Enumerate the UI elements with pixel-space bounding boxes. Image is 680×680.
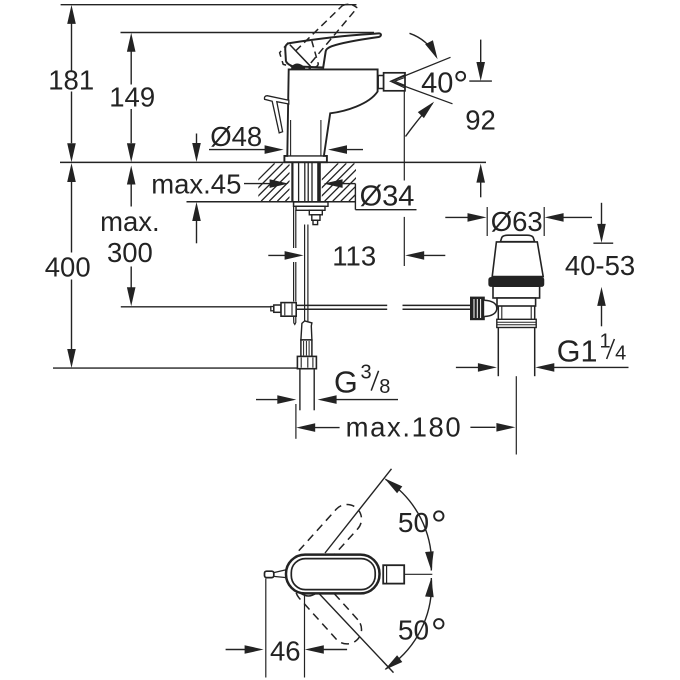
aerator top view (383, 565, 404, 583)
dimension max.180 (296, 412, 515, 443)
dimension 113 (268, 240, 445, 271)
knob housing (484, 300, 497, 316)
dimension 181 vertical (48, 5, 94, 162)
swing angle upper line (325, 469, 392, 553)
raised lever dashed outline (280, 4, 358, 68)
hose crimp sleeve (301, 340, 312, 357)
svg-text:8: 8 (379, 376, 390, 398)
lever tip top view (265, 570, 287, 578)
svg-text:4: 4 (615, 342, 626, 364)
dimension Ø48 base (209, 121, 363, 154)
drain centerline (515, 376, 517, 454)
svg-text:113: 113 (332, 240, 376, 271)
mounting deck surface line (60, 161, 486, 163)
handle swing dashed outline upper (295, 504, 361, 574)
drain control knob (471, 297, 485, 319)
svg-text:181: 181 (48, 65, 94, 96)
swing angle lower line (319, 594, 394, 673)
dimension 40-53 (565, 203, 635, 326)
svg-text:max.: max. (100, 206, 160, 237)
dimension G1 1/4 (456, 331, 629, 372)
drain rubber seal (489, 278, 544, 287)
bottom reference line (hose length 400) (53, 367, 298, 369)
dimension Ø34 hole with leader (324, 179, 417, 212)
spray angle lower line (392, 82, 453, 104)
spray angle upper arc (410, 33, 438, 59)
label 40 deg (421, 67, 465, 99)
deck underside line (187, 201, 357, 203)
svg-text:300: 300 (107, 237, 153, 268)
supply hose (301, 225, 312, 340)
svg-text:400: 400 (45, 252, 91, 283)
svg-text:92: 92 (465, 105, 496, 136)
dimension 400 vertical (45, 163, 91, 368)
svg-text:40: 40 (421, 67, 453, 99)
svg-text:Ø34: Ø34 (360, 180, 415, 212)
extension line faucet centerline (295, 404, 297, 439)
dimension max.45 (151, 134, 288, 244)
top reference line (spout height 181) (61, 4, 357, 6)
aerator nozzle (384, 73, 405, 91)
dimension max.300 vertical (100, 166, 160, 307)
deck cross-section hatch right of hole (300, 163, 395, 201)
label 50 deg lower (398, 615, 444, 646)
reference line (handle height 149) (121, 32, 375, 34)
spray angle lower arc (406, 102, 435, 137)
svg-text:3: 3 (361, 362, 372, 384)
deck cross-section hatch left of hole (237, 163, 332, 201)
svg-text:G1: G1 (557, 335, 598, 369)
mounting washer and nut stack (294, 202, 329, 225)
threaded shank through deck (292, 163, 319, 202)
dimension 46 (226, 635, 348, 666)
reference line at pop-up rod level (121, 306, 274, 308)
tailpipe coupling ring (497, 319, 536, 327)
pop-up control bracket on body (264, 96, 288, 133)
check valve nut (297, 356, 316, 368)
dimension 92 (465, 40, 496, 198)
svg-text:Ø63: Ø63 (491, 206, 543, 237)
pop-up rod left fitting (271, 303, 296, 317)
swing angle upper arc (385, 478, 434, 570)
drain valve body (493, 286, 540, 306)
extension line mounting hole (304, 595, 306, 678)
pop-up rod vertical (294, 202, 296, 324)
dimension 149 vertical (109, 33, 155, 163)
spray angle upper line (392, 57, 451, 81)
faucet body (284, 69, 377, 162)
svg-text:Ø48: Ø48 (210, 121, 262, 152)
spout centerline top view (404, 573, 432, 575)
pop-up rod horizontal (296, 305, 471, 309)
drain extension lines (487, 207, 544, 236)
spout connector (378, 76, 383, 89)
handle swing dashed outline lower (295, 574, 361, 644)
drain flange cone (492, 242, 543, 277)
svg-text:50: 50 (398, 507, 429, 538)
spout centerline extension (403, 91, 405, 266)
dimension Ø63 (445, 206, 592, 237)
extension line lever tip (265, 579, 267, 678)
svg-text:1: 1 (600, 331, 611, 353)
svg-text:40-53: 40-53 (565, 250, 635, 281)
label 50 deg upper (398, 507, 444, 538)
drain tailpipe (498, 306, 534, 376)
svg-text:149: 149 (109, 82, 155, 113)
svg-text:50: 50 (398, 615, 429, 646)
svg-text:max.45: max.45 (151, 168, 241, 199)
connection pipe G3/8 (300, 369, 314, 411)
swing angle lower arc (385, 578, 434, 670)
faucet body top view (286, 555, 380, 596)
svg-text:G: G (334, 366, 358, 400)
svg-text:46: 46 (270, 635, 301, 666)
drain plug cap (500, 235, 534, 242)
svg-text:max.180: max.180 (346, 412, 463, 443)
faucet lever handle (285, 33, 381, 68)
dimension G3/8 (256, 362, 398, 404)
